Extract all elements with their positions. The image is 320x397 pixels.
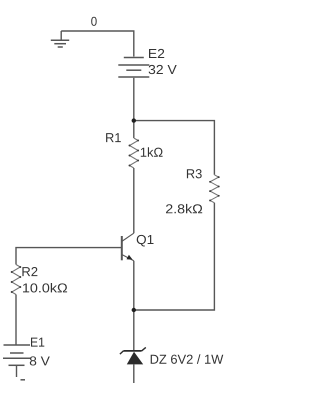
resistor R1 vertex dots bbox=[129, 140, 140, 167]
wire branch to R3 rail bbox=[134, 121, 215, 175]
wire E2 to R1 bbox=[133, 78, 135, 138]
label Q1 bbox=[137, 235, 154, 247]
transistor Q1 bbox=[122, 233, 134, 261]
junction node bottom bbox=[132, 308, 136, 312]
wire bottom node to zener bbox=[133, 310, 135, 351]
battery E1 bbox=[3, 345, 31, 365]
wire zener to end bbox=[133, 364, 135, 383]
value 1kOhm bbox=[141, 147, 163, 156]
value 8 V bbox=[30, 356, 50, 365]
battery E2 bbox=[118, 58, 149, 78]
resistor R2 vertex dots bbox=[11, 266, 21, 293]
zener diode DZ bbox=[120, 347, 146, 364]
wire R1 to Q1 collector bbox=[133, 168, 135, 233]
resistor R3 bbox=[210, 175, 219, 203]
value 2.8kOhm bbox=[166, 204, 202, 214]
wire R3 to bottom node bbox=[134, 203, 215, 310]
label E1 bbox=[31, 338, 44, 347]
label R3 bbox=[187, 169, 202, 178]
wire base to R2 bbox=[16, 248, 122, 265]
junction node top bbox=[132, 118, 136, 122]
resistor R2 bbox=[12, 265, 21, 295]
wire top (ground to E2) bbox=[61, 31, 134, 57]
E1 minus polarity mark bbox=[21, 379, 26, 381]
wire Q1 emitter down bbox=[133, 261, 135, 310]
wire R2 to E1 bbox=[15, 295, 17, 346]
resistor R1 bbox=[130, 138, 139, 168]
E1 bottom terminal stub bbox=[16, 365, 18, 377]
label E2 bbox=[149, 49, 164, 58]
label R2 bbox=[22, 267, 37, 276]
label R1 bbox=[106, 133, 121, 142]
value 10.0kOhm bbox=[23, 283, 67, 293]
resistor R3 vertex dots bbox=[209, 176, 219, 201]
node 0 label bbox=[91, 17, 96, 26]
value 32 V bbox=[149, 65, 177, 74]
label DZ 6V2 / 1W bbox=[151, 354, 224, 364]
ground bbox=[51, 31, 69, 47]
